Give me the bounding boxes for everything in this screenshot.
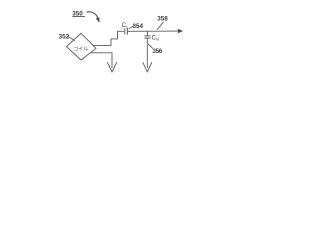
coil block 352 (diamond): [67, 33, 97, 60]
ref label 352: [59, 34, 70, 41]
svg-text:354: 354: [133, 23, 144, 30]
pointer line 356: [148, 44, 153, 49]
label C1: [122, 23, 129, 29]
ground (right): [143, 62, 152, 72]
wire: junction down to Cm: [147, 31, 149, 36]
leader arrow from 350: [87, 12, 100, 23]
label Cm: [152, 35, 160, 41]
wire: C1 to output arrow: [128, 30, 179, 32]
ground (left): [107, 62, 117, 72]
wire: diamond lower output to ground: [90, 53, 112, 68]
capacitor Cm: [144, 36, 150, 38]
ref label 358: [157, 15, 168, 22]
svg-text:352: 352: [59, 34, 70, 41]
svg-text:356: 356: [152, 48, 162, 55]
ref label 356: [152, 48, 162, 55]
svg-text:コイル: コイル: [73, 47, 88, 53]
wire: Cm to ground: [146, 38, 148, 68]
pointer line 352: [68, 36, 75, 41]
pointer line 358: [157, 22, 164, 30]
capacitor C1: [125, 28, 128, 34]
output arrowhead (node 358): [178, 29, 183, 34]
pointer line 354: [129, 25, 135, 29]
svg-text:358: 358: [157, 15, 168, 22]
label コイル inside diamond: [73, 47, 88, 53]
wire: diamond upper output to C1 (staircase): [93, 31, 124, 45]
ref label 350: [72, 10, 85, 17]
ref label 354: [133, 23, 144, 30]
